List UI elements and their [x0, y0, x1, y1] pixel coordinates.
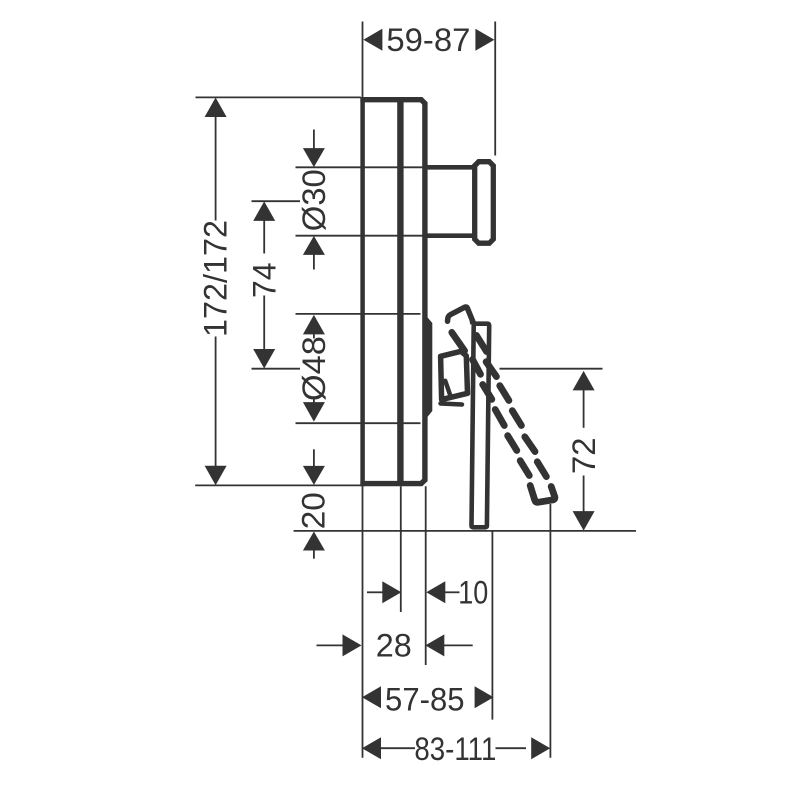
- svg-text:Ø48: Ø48: [296, 336, 332, 401]
- lever adapter bottom lip: [441, 404, 463, 405]
- swung lever dashed inner edge dash 6: [520, 461, 529, 476]
- dimension 72 line upper: [583, 390, 585, 428]
- dimension 10 tail right: [445, 591, 460, 593]
- svg-text:83-111: 83-111: [414, 731, 496, 767]
- dimension 172/172 line lower: [215, 337, 217, 467]
- plate left edge wall line: [360, 97, 365, 486]
- lever adapter strut: [445, 381, 450, 397]
- wire extension line knob axis: [252, 200, 301, 202]
- dimension 20 stub top: [313, 449, 315, 467]
- swung lever dashed inner edge dash 3: [483, 385, 492, 400]
- dimension D30 arrow up: [303, 236, 325, 255]
- dimension 72 line lower: [583, 476, 585, 512]
- dimension 83-111 line left: [381, 747, 415, 749]
- wire extension line wall top: [362, 22, 364, 98]
- plate middle line: [397, 98, 403, 487]
- dimension 83-111 line right: [496, 747, 527, 749]
- dimension D48 arrow up: [303, 315, 325, 335]
- swung lever dashed outer edge dash 5: [525, 437, 535, 452]
- valve cartridge bump: [423, 312, 433, 424]
- svg-text:172/172: 172/172: [197, 220, 233, 337]
- wire extension line stem top: [296, 166, 428, 168]
- svg-text:72: 72: [566, 438, 602, 475]
- swung lever dashed outer edge dash 1: [477, 336, 487, 352]
- lever grip bar: [472, 324, 490, 528]
- wire extension line handle axis right: [500, 368, 603, 370]
- dimension 74 line upper: [263, 220, 265, 254]
- svg-text:74: 74: [247, 263, 283, 299]
- dimension D48 arrow down: [303, 402, 325, 422]
- svg-text:20: 20: [295, 492, 331, 529]
- wire extension line plate front bottom: [425, 486, 427, 665]
- swung lever dashed inner edge dash 4: [495, 410, 504, 426]
- knob face: [475, 162, 494, 244]
- dimension 74 arrow bottom: [253, 349, 275, 369]
- lever neck: [467, 307, 476, 324]
- dimension 83-111 arrow left: [362, 737, 381, 759]
- wire extension line plate inner bottom: [400, 486, 402, 612]
- svg-text:Ø30: Ø30: [296, 169, 332, 231]
- dimension 72 arrow down: [573, 511, 595, 530]
- dimension 10 arrow right: [382, 581, 401, 603]
- dimension 20 arrow down: [303, 466, 325, 485]
- dimension 10 tail left: [367, 591, 383, 593]
- wire extension line plate top left: [196, 96, 361, 98]
- wire extension line wall bottom: [362, 486, 364, 757]
- wire extension line handle axis left: [252, 368, 301, 370]
- swung lever dashed inner edge dash 2: [473, 360, 481, 375]
- swung lever dashed outer edge dash 6: [537, 462, 546, 477]
- dimension D30 stub top: [313, 130, 315, 150]
- dimension D48 line upper: [313, 333, 315, 339]
- dimension 72 arrow up: [573, 371, 595, 391]
- dimension D30 stub bottom: [313, 255, 315, 270]
- wire extension line lever swing bottom: [549, 504, 551, 758]
- svg-text:59-87: 59-87: [386, 22, 470, 58]
- dimension 57-85 arrow right: [475, 686, 494, 708]
- knob stem bottom: [427, 233, 473, 238]
- wire extension line escutcheon bottom: [296, 422, 421, 424]
- dimension 172/172 arrow bottom: [205, 466, 227, 486]
- dimension 172/172 arrow top: [205, 98, 227, 118]
- svg-text:57-85: 57-85: [385, 682, 465, 718]
- dimension 28 tail right: [444, 644, 473, 646]
- wire extension line lever bottom: [294, 530, 636, 532]
- swung lever end cap: [530, 486, 555, 503]
- wire extension line knob face top: [494, 22, 496, 156]
- dimension 74 arrow top: [253, 201, 275, 221]
- dimension 20 stub bottom: [313, 550, 315, 559]
- swung lever dashed outer edge dash 4: [512, 411, 521, 426]
- swung lever dashed inner edge dash 5: [508, 436, 517, 451]
- lever adapter body: [441, 351, 468, 399]
- dimension 28 arrow left: [425, 634, 444, 656]
- wire extension line lever front bottom: [491, 531, 493, 720]
- wire extension line escutcheon top: [296, 313, 421, 315]
- dimension 74 line lower: [263, 296, 265, 351]
- dimension 83-111 arrow right: [531, 737, 550, 759]
- svg-text:28: 28: [376, 627, 412, 663]
- plate outline with beveled front corners: [360, 100, 425, 484]
- dimension D48 line lower: [313, 399, 315, 404]
- dimension 10 arrow left: [426, 581, 445, 603]
- dimension 59-87 arrow left: [363, 29, 382, 51]
- dimension 59-87 arrow right: [475, 29, 494, 51]
- dimension 172/172 line upper: [215, 115, 217, 221]
- dimension 57-85 arrow left: [362, 686, 381, 708]
- wire extension line plate bottom left: [195, 484, 361, 486]
- dimension 20 arrow up: [303, 532, 325, 551]
- wire extension line stem bottom: [296, 235, 428, 237]
- swung lever dashed outer edge dash 2: [486, 362, 496, 377]
- dimension 28 arrow right: [343, 634, 362, 656]
- svg-text:10: 10: [458, 575, 488, 611]
- lever hook: [448, 307, 474, 322]
- swung lever dashed outer edge dash 3: [500, 386, 509, 401]
- dimension 28 tail left: [317, 644, 344, 646]
- knob stem top: [427, 165, 473, 170]
- swung lever dashed inner edge dash 1: [452, 332, 465, 350]
- dimension D30 arrow down: [303, 148, 325, 167]
